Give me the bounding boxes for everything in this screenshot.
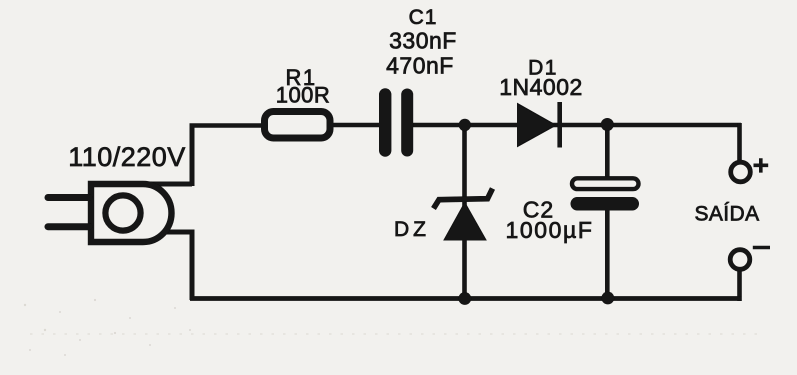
output terminal + circle: [731, 162, 751, 182]
zener DZ triangle: [444, 203, 486, 241]
plug P1 cable hole: [105, 195, 140, 230]
scan artifact: faint dotted line near bottom: [30, 333, 760, 335]
svg-text:C1: C1: [409, 6, 438, 29]
capacitor C1 plate left: [379, 95, 391, 151]
output terminal - circle: [730, 250, 750, 270]
wire: left vertical bottom (plug to bottom rail): [161, 230, 192, 301]
wire: zener branch vertical: [462, 125, 467, 298]
node junction C2 bottom: [601, 292, 614, 305]
capacitor C2 bottom plate (filled): [571, 197, 640, 211]
wire: top rail segment plug to R1: [190, 123, 264, 128]
node junction D1/C2 top: [601, 118, 614, 131]
wire: right vertical from - terminal to bottom rail: [737, 268, 742, 301]
svg-text:110/220V: 110/220V: [68, 142, 186, 172]
scan artifact: faint speckle patch bottom-left: [24, 299, 191, 356]
diode D1 triangle: [518, 104, 557, 147]
resistor R1 body: [265, 112, 331, 139]
svg-text:SAÍDA: SAÍDA: [694, 203, 759, 226]
svg-text:470nF: 470nF: [386, 53, 454, 79]
svg-text:330nF: 330nF: [389, 28, 457, 54]
plug P1 prong top: [48, 194, 89, 201]
diode D1 cathode bar: [557, 102, 562, 148]
wire: C2 branch vertical upper: [605, 125, 610, 180]
capacitor C2 top plate (outlined): [572, 178, 639, 189]
wire: top rail R1 to C1: [331, 123, 381, 128]
wire: top rail C1 to output corner: [411, 123, 741, 128]
svg-text:100R: 100R: [276, 83, 331, 108]
wire: left vertical top (plug to top rail): [141, 124, 192, 187]
wire: bottom rail: [190, 296, 742, 301]
zener DZ cathode bar with hooks: [434, 189, 493, 209]
node junction at C1/DZ: [459, 119, 471, 131]
svg-text:1000µF: 1000µF: [505, 217, 593, 243]
plug P1 body (AC mains plug): [91, 184, 172, 242]
plug P1 prong bottom: [48, 223, 89, 230]
svg-text:DZ: DZ: [394, 218, 430, 241]
minus sign: [753, 246, 770, 250]
wire: right vertical to + terminal: [737, 123, 742, 162]
svg-text:1N4002: 1N4002: [499, 74, 583, 100]
wire: C2 branch vertical lower: [605, 207, 610, 298]
capacitor C1 plate right: [401, 95, 413, 151]
node junction DZ bottom: [458, 292, 471, 305]
plus sign: [754, 158, 769, 172]
